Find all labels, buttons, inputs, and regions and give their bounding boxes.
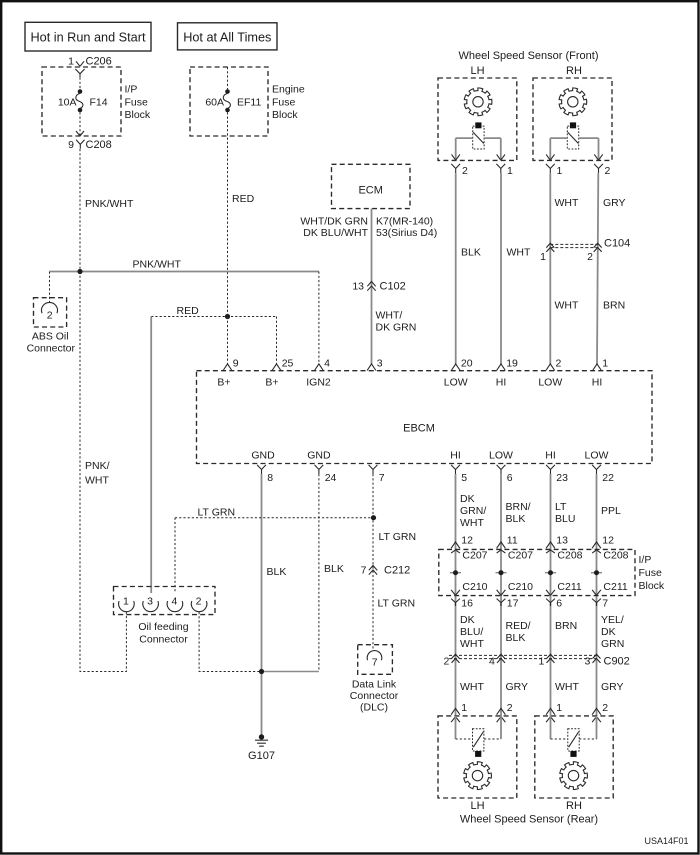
- label box: Hot in Run and Start: [25, 22, 151, 51]
- svg-text:WHT: WHT: [507, 247, 531, 259]
- svg-text:2: 2: [47, 310, 53, 322]
- connector C902: [443, 654, 629, 667]
- svg-text:RH: RH: [566, 800, 582, 812]
- svg-text:2: 2: [462, 165, 468, 177]
- svg-text:13: 13: [556, 535, 568, 547]
- wire into fuse F14: [79, 78, 81, 90]
- svg-text:13: 13: [352, 281, 364, 293]
- wire EBCM pin to rear sensor column 2: [500, 474, 502, 716]
- wire BLK from pin 8 to ground: [261, 474, 263, 737]
- wire ECM to EBCM pin 3: [371, 209, 373, 364]
- label YEL//DK/GRN: [601, 614, 624, 650]
- svg-text:Hot at All Times: Hot at All Times: [183, 31, 271, 45]
- svg-text:BLU: BLU: [555, 513, 575, 525]
- svg-text:F14: F14: [90, 97, 108, 109]
- svg-text:12: 12: [602, 535, 614, 547]
- label BRN: [555, 620, 577, 632]
- svg-text:HI: HI: [496, 377, 507, 389]
- svg-text:22: 22: [602, 472, 614, 484]
- svg-text:PNK/WHT: PNK/WHT: [133, 259, 182, 271]
- rear LH sensor wires: [456, 716, 502, 739]
- svg-text:25: 25: [282, 358, 294, 370]
- rear sensor pin 2: [592, 702, 608, 722]
- svg-text:C210: C210: [508, 581, 533, 593]
- EBCM top pin 4 (IGN2): [306, 358, 331, 389]
- svg-text:1: 1: [540, 251, 546, 263]
- EBCM bottom pin 24 (GND): [307, 450, 336, 485]
- svg-text:WHT: WHT: [460, 681, 484, 693]
- svg-text:BLK: BLK: [506, 513, 526, 525]
- svg-text:GND: GND: [251, 450, 275, 462]
- svg-text:C207: C207: [462, 550, 487, 562]
- svg-text:C208: C208: [557, 550, 582, 562]
- label K7(MR-140) 53(Sirius D4): [376, 216, 437, 240]
- svg-text:DK GRN: DK GRN: [376, 322, 417, 334]
- svg-text:LT GRN: LT GRN: [378, 598, 416, 610]
- svg-text:GRN/: GRN/: [460, 505, 486, 517]
- wire drop to ABS oil connector: [49, 272, 51, 304]
- svg-text:YEL/: YEL/: [601, 614, 624, 626]
- svg-text:BRN: BRN: [555, 620, 577, 632]
- svg-text:C207: C207: [508, 550, 533, 562]
- wire LT GRN horizontal: [175, 517, 373, 519]
- ABS oil connector: [27, 298, 76, 355]
- svg-text:WHT/: WHT/: [376, 310, 403, 322]
- svg-text:Connector: Connector: [350, 690, 399, 702]
- svg-text:Block: Block: [125, 109, 151, 121]
- svg-text:C104: C104: [604, 238, 630, 250]
- front LH gear: [464, 88, 492, 116]
- junction at PNK/WHT and F14 feed: [77, 269, 82, 274]
- svg-text:2: 2: [587, 251, 593, 263]
- svg-text:Data Link: Data Link: [352, 679, 397, 691]
- rear RH sensor coil: [568, 729, 579, 751]
- ground junction: [259, 669, 264, 674]
- label WHT/DK GRN lower: [376, 310, 417, 334]
- junction in I/P block col 4: [591, 572, 602, 574]
- EBCM bottom pin 7: [369, 465, 385, 484]
- svg-text:GRY: GRY: [506, 681, 529, 693]
- svg-text:B+: B+: [265, 377, 278, 389]
- svg-text:2: 2: [443, 656, 449, 668]
- svg-text:WHT: WHT: [85, 475, 109, 487]
- front RH sensor coil: [567, 126, 578, 149]
- wire RED vertical from EF11: [227, 112, 229, 316]
- front RH pin 2: [594, 154, 610, 177]
- fuse EF11 60A: [205, 89, 261, 112]
- junction in I/P block col 2: [496, 572, 507, 574]
- wire into fuse EF11: [227, 67, 229, 89]
- svg-text:2: 2: [556, 358, 562, 370]
- svg-text:3: 3: [377, 358, 383, 370]
- svg-text:12: 12: [461, 535, 473, 547]
- wire RED horizontal branch: [151, 316, 276, 318]
- oil feeding connector pin 4: [167, 596, 183, 612]
- wire oil pin 2 to ground junction: [199, 612, 261, 672]
- svg-text:C208: C208: [603, 550, 628, 562]
- svg-text:LT GRN: LT GRN: [379, 531, 417, 543]
- connector C207 pin 11: [497, 535, 534, 562]
- svg-text:LH: LH: [470, 65, 484, 77]
- label BRN//BLK: [506, 501, 531, 525]
- svg-text:Oil feeding: Oil feeding: [138, 621, 188, 633]
- rear LH sensor coil: [473, 729, 484, 751]
- wire WHT front LH hi: [500, 173, 502, 364]
- connector C102 pin 13: [352, 281, 405, 293]
- svg-text:RED: RED: [177, 305, 200, 317]
- wire EBCM pin to rear sensor column 3: [550, 474, 552, 716]
- svg-text:WHT: WHT: [460, 517, 484, 529]
- svg-text:PNK/: PNK/: [85, 460, 110, 472]
- I/P fuse block (top) box: [42, 67, 151, 136]
- wire RED to oil feeding connector pin 3: [150, 317, 152, 594]
- EBCM bottom pin 8 (GND): [251, 450, 275, 485]
- connector C208 pin 13: [546, 535, 583, 562]
- label WHT/DK GRN DK BLU/WHT: [300, 216, 368, 240]
- svg-text:C210: C210: [462, 581, 487, 593]
- svg-text:B+: B+: [217, 377, 230, 389]
- svg-text:8: 8: [267, 472, 273, 484]
- connector C207 pin 12: [451, 535, 488, 562]
- wire BLK front LH low: [455, 173, 457, 364]
- svg-text:BRN: BRN: [603, 300, 625, 312]
- svg-text:RED: RED: [232, 193, 255, 205]
- svg-text:7: 7: [379, 472, 385, 484]
- svg-text:WHT: WHT: [555, 300, 579, 312]
- svg-text:C902: C902: [604, 656, 630, 668]
- svg-text:G107: G107: [248, 750, 275, 762]
- label RED//BLK: [506, 620, 531, 644]
- label Data Link Connector (DLC): [350, 679, 399, 714]
- svg-text:1: 1: [538, 656, 544, 668]
- oil feeding connector pin 2: [191, 596, 207, 612]
- svg-text:7: 7: [372, 657, 378, 669]
- svg-text:WHT: WHT: [555, 681, 579, 693]
- wire drop PNK/WHT to EBCM pin 4: [318, 272, 320, 364]
- svg-text:9: 9: [68, 139, 74, 151]
- svg-text:19: 19: [506, 358, 518, 370]
- svg-text:5: 5: [461, 472, 467, 484]
- connector C211 pin 6: [546, 581, 582, 610]
- svg-text:HI: HI: [545, 450, 556, 462]
- svg-text:Wheel Speed Sensor (Rear): Wheel Speed Sensor (Rear): [460, 814, 598, 826]
- label PNK/ WHT left: [85, 460, 110, 487]
- svg-text:3: 3: [147, 596, 153, 608]
- wire pin24 to ground junction: [262, 671, 319, 673]
- front RH sensor wires: [550, 138, 598, 160]
- wire RED to EBCM pin 9: [227, 317, 229, 364]
- svg-text:C211: C211: [603, 581, 627, 593]
- rear LH sensor box: [438, 716, 517, 798]
- svg-text:DK BLU/WHT: DK BLU/WHT: [303, 227, 368, 239]
- rear sensor pin 2: [497, 702, 513, 722]
- EBCM box: [197, 371, 653, 464]
- front LH sensor coil: [473, 126, 484, 149]
- connector C208 pin 9: [68, 131, 112, 151]
- svg-text:ABS Oil: ABS Oil: [32, 331, 69, 343]
- wire EBCM pin to rear sensor column 1: [455, 474, 457, 716]
- EBCM top pin 9 (B+): [217, 358, 238, 389]
- svg-text:LH: LH: [470, 800, 484, 812]
- junction in I/P block col 1: [450, 572, 461, 574]
- oil feeding connector pin 3: [143, 596, 159, 612]
- svg-text:Connector: Connector: [139, 634, 188, 646]
- data link connector DLC box: [358, 645, 393, 675]
- wire RED to EBCM pin 25: [276, 317, 278, 364]
- svg-text:LT: LT: [555, 501, 567, 513]
- oil feeding connector box: [114, 587, 216, 615]
- svg-text:1: 1: [123, 596, 129, 608]
- label DK/GRN//WHT: [460, 493, 486, 529]
- connector C212 pin 7: [361, 565, 411, 577]
- front LH sensor wires: [456, 138, 501, 160]
- svg-text:2: 2: [196, 596, 202, 608]
- svg-text:6: 6: [507, 472, 513, 484]
- wire front RH hi: [597, 173, 598, 364]
- svg-text:I/P: I/P: [639, 554, 652, 566]
- svg-text:4: 4: [171, 596, 177, 608]
- svg-text:7: 7: [602, 598, 608, 610]
- svg-text:LOW: LOW: [444, 377, 468, 389]
- rear sensor pin 1: [546, 702, 562, 722]
- svg-text:(DLC): (DLC): [360, 702, 388, 714]
- svg-text:Wheel Speed Sensor (Front): Wheel Speed Sensor (Front): [458, 50, 598, 62]
- EBCM top pin 3: [367, 358, 383, 371]
- svg-text:Hot in Run and Start: Hot in Run and Start: [31, 31, 146, 45]
- ground G107: [248, 734, 275, 762]
- svg-text:2: 2: [507, 702, 513, 714]
- svg-text:LOW: LOW: [538, 377, 562, 389]
- svg-text:C206: C206: [86, 56, 112, 68]
- junction in I/P block col 3: [545, 572, 556, 574]
- svg-text:1: 1: [68, 56, 74, 68]
- label LT/BLU: [555, 501, 575, 525]
- svg-text:WHT: WHT: [460, 638, 484, 650]
- svg-text:DK: DK: [460, 614, 475, 626]
- svg-text:17: 17: [507, 598, 519, 610]
- svg-text:23: 23: [556, 472, 568, 484]
- connector C208 pin 12: [592, 535, 629, 562]
- svg-text:60A: 60A: [205, 97, 224, 109]
- wire BLK from pin 24: [318, 474, 320, 671]
- svg-text:4: 4: [489, 656, 495, 668]
- front LH pin 1: [496, 154, 513, 177]
- svg-text:Fuse: Fuse: [639, 567, 663, 579]
- wire front RH low: [549, 173, 551, 364]
- svg-text:EBCM: EBCM: [403, 423, 435, 435]
- svg-text:RH: RH: [566, 65, 582, 77]
- front RH gear: [559, 88, 587, 116]
- EBCM bottom pin 6 (LOW): [489, 450, 513, 485]
- svg-text:1: 1: [507, 165, 513, 177]
- svg-text:10A: 10A: [58, 97, 77, 109]
- svg-text:EF11: EF11: [237, 97, 261, 109]
- svg-text:BLK: BLK: [461, 247, 481, 259]
- I/P fuse block (bottom) box: [439, 549, 665, 595]
- connector C206 pin 1: [68, 56, 112, 78]
- EBCM bottom pin 5 (HI): [450, 450, 467, 485]
- svg-text:Fuse: Fuse: [125, 97, 149, 109]
- front RH sensor box: [533, 78, 612, 160]
- label PPL: [601, 505, 621, 517]
- oil feeding connector pin 1: [119, 596, 135, 612]
- svg-text:PPL: PPL: [601, 505, 621, 517]
- svg-text:C211: C211: [557, 581, 581, 593]
- svg-text:2: 2: [602, 702, 608, 714]
- svg-text:20: 20: [461, 358, 473, 370]
- svg-text:GND: GND: [307, 450, 331, 462]
- svg-text:24: 24: [325, 472, 337, 484]
- connector C210 pin 17: [497, 581, 534, 610]
- wire from fuse F14 to C208: [79, 112, 81, 136]
- svg-text:1: 1: [602, 358, 608, 370]
- svg-text:4: 4: [324, 358, 330, 370]
- svg-text:Connector: Connector: [27, 343, 76, 355]
- svg-text:LOW: LOW: [585, 450, 609, 462]
- svg-text:BLK: BLK: [324, 563, 344, 575]
- svg-text:3: 3: [584, 656, 590, 668]
- svg-text:BLK: BLK: [267, 566, 287, 578]
- front LH sensor box: [438, 78, 517, 160]
- svg-text:C208: C208: [86, 139, 112, 151]
- junction LT GRN: [371, 515, 376, 520]
- svg-text:I/P: I/P: [125, 84, 138, 96]
- EBCM bottom pin 23 (HI): [545, 450, 568, 485]
- svg-text:DK: DK: [601, 626, 616, 638]
- rear RH gear: [560, 762, 588, 790]
- svg-text:BRN/: BRN/: [506, 501, 531, 513]
- junction RED: [225, 314, 230, 319]
- svg-text:Fuse: Fuse: [272, 97, 296, 109]
- EBCM top pin 20 (LOW): [444, 358, 473, 389]
- svg-text:11: 11: [507, 535, 518, 547]
- svg-text:BLU/: BLU/: [460, 626, 483, 638]
- svg-text:9: 9: [233, 358, 239, 370]
- svg-text:1: 1: [556, 702, 562, 714]
- svg-text:BLK: BLK: [506, 632, 526, 644]
- svg-text:IGN2: IGN2: [306, 377, 331, 389]
- EBCM top pin 25 (B+): [265, 358, 293, 389]
- svg-text:HI: HI: [450, 450, 461, 462]
- svg-text:LT GRN: LT GRN: [198, 507, 236, 519]
- front RH pin 1: [546, 154, 563, 177]
- svg-text:GRN: GRN: [601, 638, 624, 650]
- EBCM top pin 19 (HI): [496, 358, 518, 389]
- rear sensor pin 1: [451, 702, 467, 722]
- wire LT GRN from pin 7 to DLC: [372, 474, 374, 649]
- svg-text:GRY: GRY: [601, 681, 624, 693]
- svg-text:6: 6: [556, 598, 562, 610]
- svg-text:DK: DK: [460, 493, 475, 505]
- connector C104: [540, 238, 630, 264]
- rear RH sensor wires: [551, 716, 597, 739]
- EBCM bottom pin 22 (LOW): [585, 450, 615, 485]
- svg-text:7: 7: [361, 565, 367, 577]
- label DK/BLU//WHT: [460, 614, 484, 650]
- wire EBCM pin to rear sensor column 4: [596, 474, 598, 716]
- label Oil feeding Connector: [138, 621, 188, 646]
- svg-text:LOW: LOW: [489, 450, 513, 462]
- svg-text:RED/: RED/: [506, 620, 531, 632]
- svg-text:K7(MR-140): K7(MR-140): [376, 216, 433, 228]
- svg-text:HI: HI: [592, 377, 603, 389]
- svg-text:ECM: ECM: [358, 185, 382, 197]
- svg-text:C212: C212: [384, 565, 410, 577]
- wire PNK/WHT vertical from C208: [79, 149, 81, 272]
- fuse F14 10A: [58, 89, 108, 112]
- connector C211 pin 7: [592, 581, 628, 610]
- wire PNK/WHT horizontal: [50, 271, 319, 273]
- EBCM top pin 2 (LOW): [538, 358, 562, 389]
- svg-text:Block: Block: [272, 109, 298, 121]
- svg-text:2: 2: [605, 165, 611, 177]
- front LH pin 2: [451, 154, 468, 177]
- svg-text:WHT: WHT: [555, 197, 579, 209]
- wire PNK/WHT to oil pin 1: [80, 272, 126, 672]
- svg-text:1: 1: [557, 165, 563, 177]
- rear LH gear: [464, 762, 492, 790]
- svg-text:53(Sirius D4): 53(Sirius D4): [376, 227, 437, 239]
- svg-text:Engine: Engine: [272, 84, 305, 96]
- svg-text:WHT/DK GRN: WHT/DK GRN: [300, 216, 368, 228]
- EBCM top pin 1 (HI): [592, 358, 608, 389]
- svg-text:16: 16: [461, 598, 473, 610]
- svg-text:USA14F01: USA14F01: [644, 836, 688, 846]
- connector C210 pin 16: [451, 581, 488, 610]
- engine fuse block box: [190, 67, 305, 136]
- svg-text:1: 1: [461, 702, 467, 714]
- ECM box: [332, 164, 411, 208]
- svg-text:GRY: GRY: [603, 197, 626, 209]
- svg-text:C102: C102: [380, 281, 406, 293]
- label box: Hot at All Times: [178, 23, 278, 50]
- svg-text:PNK/WHT: PNK/WHT: [85, 198, 134, 210]
- wire LT GRN drop to oil connector pin 4: [174, 518, 176, 593]
- svg-text:Block: Block: [639, 580, 665, 592]
- rear RH sensor box: [535, 716, 613, 798]
